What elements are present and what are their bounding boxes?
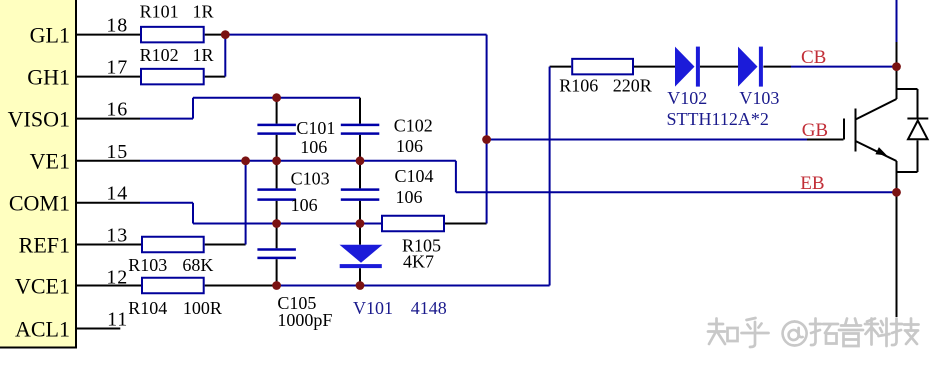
svg-text:ACL1: ACL1: [15, 316, 70, 341]
svg-text:4K7: 4K7: [403, 252, 434, 272]
svg-text:18: 18: [106, 15, 128, 37]
svg-text:V101: V101: [353, 298, 393, 318]
svg-text:VE1: VE1: [30, 149, 70, 174]
svg-text:V103: V103: [739, 88, 779, 108]
svg-text:R102: R102: [140, 45, 179, 65]
svg-text:1R: 1R: [193, 2, 214, 22]
svg-text:C103: C103: [291, 169, 330, 189]
svg-text:R106: R106: [559, 75, 598, 95]
svg-text:C101: C101: [296, 118, 335, 138]
svg-text:220R: 220R: [613, 75, 652, 95]
svg-text:GL1: GL1: [30, 23, 70, 48]
svg-text:VCE1: VCE1: [15, 273, 70, 298]
svg-text:16: 16: [106, 99, 128, 121]
svg-text:106: 106: [291, 195, 318, 215]
svg-text:GB: GB: [802, 120, 828, 141]
svg-text:CB: CB: [801, 47, 826, 68]
svg-text:R103: R103: [128, 255, 167, 275]
svg-text:VISO1: VISO1: [8, 107, 70, 132]
svg-text:106: 106: [396, 136, 423, 156]
svg-text:GH1: GH1: [27, 65, 70, 90]
svg-text:1R: 1R: [193, 45, 214, 65]
svg-text:1000pF: 1000pF: [277, 310, 332, 330]
svg-text:V102: V102: [667, 88, 707, 108]
svg-text:R104: R104: [128, 298, 167, 318]
svg-text:4148: 4148: [411, 298, 447, 318]
svg-text:REF1: REF1: [19, 232, 70, 257]
svg-text:106: 106: [300, 137, 327, 157]
svg-text:106: 106: [396, 187, 423, 207]
svg-text:C104: C104: [395, 166, 434, 186]
svg-text:EB: EB: [800, 173, 824, 194]
svg-text:17: 17: [106, 57, 128, 79]
svg-text:14: 14: [106, 183, 128, 205]
svg-text:C102: C102: [394, 116, 433, 136]
svg-text:68K: 68K: [182, 255, 213, 275]
svg-text:12: 12: [106, 266, 128, 288]
svg-text:15: 15: [106, 141, 128, 163]
svg-text:13: 13: [106, 225, 128, 247]
svg-text:100R: 100R: [183, 298, 222, 318]
svg-text:STTH112A*2: STTH112A*2: [667, 109, 769, 129]
svg-text:11: 11: [107, 309, 128, 331]
svg-text:COM1: COM1: [9, 191, 70, 216]
svg-text:R101: R101: [140, 2, 179, 22]
